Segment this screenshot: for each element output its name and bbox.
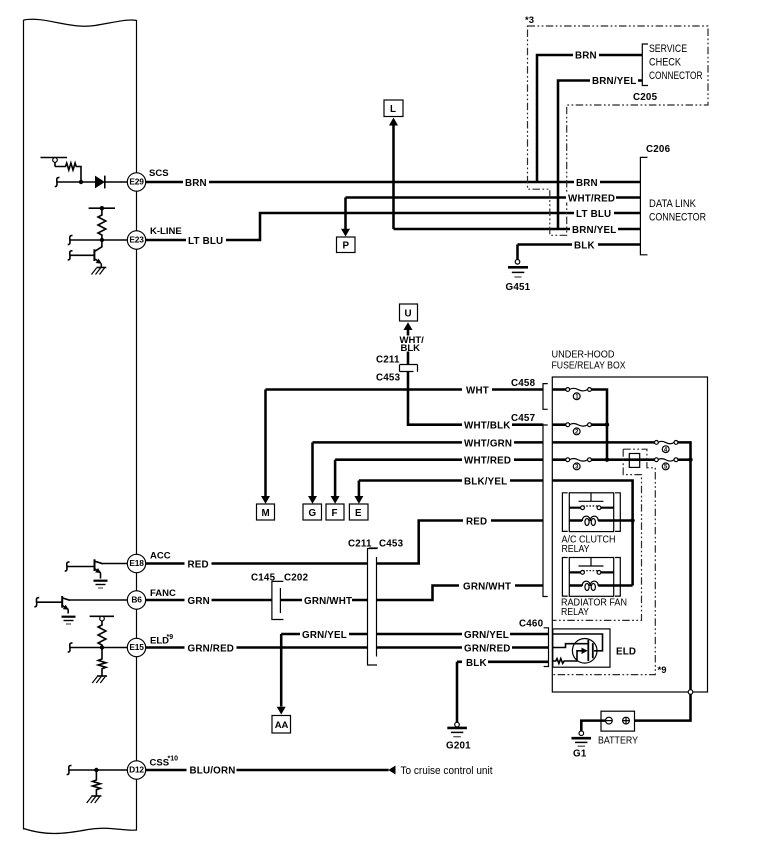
svg-text:E15: E15 [129, 642, 144, 652]
svg-text:C211: C211 [376, 355, 400, 366]
svg-text:BRN: BRN [185, 178, 207, 189]
svg-text:WHT/RED: WHT/RED [464, 456, 511, 467]
dash-dot option region left branch (relays) [553, 449, 642, 620]
wire WHT/GRN [313, 442, 544, 496]
label GRN/YEL (right) [462, 629, 510, 641]
svg-text:BRN/YEL: BRN/YEL [592, 76, 636, 87]
wire BRN/YEL (from L corner to data link connector) [394, 228, 641, 231]
svg-text:RED: RED [466, 517, 487, 528]
svg-text:K-LINE: K-LINE [150, 226, 182, 237]
svg-text:ELD: ELD [616, 647, 636, 658]
svg-text:RELAY: RELAY [561, 607, 589, 618]
relay component square (fuse box) [629, 454, 639, 468]
svg-text:C202: C202 [284, 573, 309, 584]
label BLU/ORN [187, 765, 237, 777]
wire battery negative to G1 [581, 721, 605, 731]
svg-text:FANC: FANC [150, 588, 176, 599]
label BLK (ELD ground wire) [462, 657, 488, 669]
svg-text:CONNECTOR: CONNECTOR [649, 70, 703, 82]
earth ground (B6 emitter) [62, 617, 76, 624]
svg-text:FUSE/RELAY BOX: FUSE/RELAY BOX [552, 361, 626, 372]
svg-text:C453: C453 [376, 373, 401, 384]
label BLK/YEL [462, 476, 510, 488]
svg-text:AA: AA [275, 720, 289, 731]
ground G1 [572, 731, 592, 760]
connector box M [257, 496, 275, 520]
wire vertical to M connector [264, 390, 267, 497]
svg-text:C458: C458 [511, 378, 536, 389]
svg-text:WHT/GRN: WHT/GRN [464, 438, 512, 449]
svg-text:B6: B6 [131, 595, 142, 605]
svg-text:BLK: BLK [574, 241, 595, 252]
svg-text:C457: C457 [511, 413, 536, 424]
wire vertical to L connector arrow [392, 125, 395, 229]
svg-text:RELAY: RELAY [562, 544, 590, 555]
D12 internal: lead, resistor, chassis ground [67, 765, 128, 803]
connector box AA [272, 707, 291, 733]
svg-text:L: L [390, 104, 396, 115]
svg-text:GRN/WHT: GRN/WHT [304, 596, 352, 607]
label WHT/RED (data link) [566, 193, 616, 205]
svg-text:To cruise control unit: To cruise control unit [401, 765, 493, 777]
E29 internal: input lead with hook [55, 177, 95, 186]
ground G201 [446, 722, 471, 751]
chassis ground (E23 transistor emitter) [92, 268, 107, 275]
pin E15 [127, 634, 173, 657]
svg-text:P: P [343, 241, 350, 252]
wire WHT/RED (from P corner to data link connector) [346, 196, 641, 199]
label WHT/GRN [462, 437, 514, 449]
label GRN/WHT (at relay) [459, 581, 515, 593]
label BRN (service check wire) [573, 50, 599, 62]
svg-text:GRN/RED: GRN/RED [464, 644, 511, 655]
ground G451 [506, 260, 531, 294]
pin E18 [127, 551, 170, 573]
label WHT/BLK [462, 420, 512, 432]
connector box E [349, 496, 368, 520]
svg-text:BLK/YEL: BLK/YEL [464, 477, 507, 488]
ELD unit [553, 629, 636, 667]
svg-text:C453: C453 [379, 539, 404, 550]
label BRN/YEL (service check wire) [590, 75, 638, 87]
svg-text:LT BLU: LT BLU [188, 236, 223, 247]
radiator fan relay [561, 558, 633, 619]
connector box U [400, 304, 418, 330]
label GRN/YEL (left) [300, 629, 349, 641]
wire GRN/RED (E15 to ELD) [146, 646, 549, 649]
svg-text:C205: C205 [633, 92, 658, 103]
svg-text:*10: *10 [168, 756, 179, 763]
svg-text:BATTERY: BATTERY [598, 736, 638, 747]
pin E29 [127, 168, 168, 191]
svg-text:C211: C211 [348, 539, 372, 550]
UNDER-HOOD FUSE/RELAY BOX title [552, 350, 626, 372]
label GRN/WHT (after C202) [302, 595, 352, 607]
svg-text:UNDER-HOOD: UNDER-HOOD [552, 350, 615, 361]
E23 internal: pull-up resistor to rail [89, 206, 115, 242]
svg-text:SERVICE: SERVICE [649, 43, 687, 55]
svg-text:G201: G201 [446, 741, 471, 752]
pin D12 [127, 756, 178, 780]
label LT BLU (at E23) [186, 235, 226, 247]
svg-text:CSS: CSS [150, 758, 170, 769]
connector C205 service check connector [633, 43, 703, 103]
E23 internal: lead with hook [68, 235, 128, 244]
svg-text:*9: *9 [167, 634, 174, 641]
connector C211/C453 inline (tall) [348, 539, 404, 666]
fuse 5 [655, 458, 678, 471]
svg-text:G1: G1 [573, 749, 587, 760]
connector C145/C202 inline [251, 573, 309, 620]
wire BRN drop to service check connector [537, 55, 642, 182]
wire WHT (to fuse 1) [266, 388, 544, 391]
svg-text:U: U [405, 309, 412, 320]
battery feed circle on box edge [688, 690, 693, 695]
connector box L [384, 100, 403, 126]
svg-text:CHECK: CHECK [649, 57, 682, 69]
wire K-LINE LT BLU (E23 right, up, right to data link connector) [146, 213, 641, 240]
svg-text:C206: C206 [646, 144, 671, 155]
dash-dot option region (fuses 4/5) right branch to *9 [553, 449, 655, 674]
label GRN/RED (at E15) [185, 643, 237, 655]
svg-text:GRN/RED: GRN/RED [188, 644, 235, 655]
E15 internal: lead with hook [68, 643, 128, 652]
svg-text:*9: *9 [658, 665, 667, 676]
connector C457 bracket [543, 425, 548, 597]
wire CSS BLU/ORN (D12 to cruise control) [146, 769, 389, 772]
wire GRN / GRN-WHT (B6 to radiator fan relay coil) [146, 586, 544, 601]
label GRN/RED (right) [462, 643, 512, 655]
connector box G [303, 496, 322, 520]
svg-text:SCS: SCS [149, 168, 169, 179]
wire BLK (ELD ground) [457, 662, 549, 723]
wire WHT/BLK from connector down to fuse box [408, 372, 543, 425]
svg-text:BLK: BLK [466, 658, 487, 669]
svg-text:LT BLU: LT BLU [576, 209, 611, 220]
svg-text:RED: RED [188, 560, 209, 571]
svg-text:BRN/YEL: BRN/YEL [572, 225, 616, 236]
svg-text:E: E [355, 508, 362, 519]
labels WHT row [462, 385, 492, 397]
connector box F [326, 496, 344, 520]
transistor Q3 (B6 driver) [34, 596, 127, 614]
svg-text:E23: E23 [129, 235, 144, 245]
diode D1 (E29 line) [95, 176, 127, 189]
pin E23 [127, 226, 181, 249]
svg-text:BRN: BRN [576, 178, 598, 189]
fuse 2 [566, 423, 592, 436]
fuse/relay box outline [552, 377, 707, 692]
connector box P [337, 229, 356, 253]
wire WHT/BLK up to U [407, 329, 410, 365]
svg-text:BRN: BRN [575, 51, 597, 62]
svg-text:WHT: WHT [466, 386, 489, 397]
wire SCS BRN main (E29 to data link connector) [146, 181, 641, 184]
svg-text:BLU/ORN: BLU/ORN [190, 766, 236, 777]
wire BRN/YEL drop to service check connector [558, 81, 642, 230]
wire vertical to AA connector [280, 634, 283, 707]
wire BLK/YEL feed inside box to relay coils [552, 481, 632, 586]
label GRN (at B6) [185, 595, 212, 607]
label RED (at E18) [185, 559, 212, 571]
fuse box internal wires [552, 390, 692, 721]
fuse 3 [566, 458, 592, 471]
ECM box (left, wavy top and bottom) [24, 19, 137, 833]
label WHT/RED [462, 455, 514, 467]
svg-text:WHT/BLK: WHT/BLK [464, 421, 511, 432]
label BRN (at E29) [183, 177, 209, 189]
connector C458 bracket [543, 384, 548, 410]
transistor Q1 (E23 driver) [68, 240, 102, 268]
connector C206 data link connector [640, 144, 706, 255]
svg-text:CONNECTOR: CONNECTOR [649, 212, 706, 224]
wire BLK/YEL (to relay coils) [359, 481, 544, 497]
svg-text:G451: G451 [506, 282, 531, 293]
svg-text:GRN: GRN [188, 596, 210, 607]
label BRN/YEL (data link) [570, 224, 618, 236]
svg-text:GRN/WHT: GRN/WHT [463, 582, 511, 593]
battery [598, 711, 638, 746]
dash-dot option region *3 [525, 15, 708, 235]
svg-text:GRN/YEL: GRN/YEL [302, 630, 347, 641]
svg-text:ACC: ACC [150, 551, 171, 562]
fuse 1 [566, 388, 592, 401]
label WHT/BLK (vertical wire to U) [400, 335, 425, 354]
label BRN (data link) [574, 177, 600, 189]
svg-text:WHT/RED: WHT/RED [568, 194, 615, 205]
transistor Q2 (E18 driver) [65, 559, 128, 578]
connector C460 bracket [519, 619, 549, 667]
svg-text:D12: D12 [129, 765, 144, 775]
wire WHT/RED (to fuse 3) [335, 460, 543, 497]
A/C clutch relay [562, 493, 633, 555]
label BLK (data link) [572, 240, 598, 252]
earth ground (E18 emitter) [94, 581, 108, 588]
wire GRN/YEL (AA to ELD) [281, 633, 548, 636]
label LT BLU (data link) [574, 208, 614, 220]
svg-text:E18: E18 [129, 558, 144, 568]
svg-text:BLK: BLK [401, 343, 421, 354]
svg-text:G: G [309, 508, 317, 519]
E15 internal: pull-up resistor to terminal [90, 616, 114, 649]
label RED (fuse box feed) [463, 516, 491, 528]
fuse 4 [655, 441, 678, 454]
svg-text:DATA LINK: DATA LINK [649, 198, 697, 210]
pin B6 [127, 588, 176, 609]
E29 internal: pull-up resistor and terminal [41, 158, 84, 185]
wire RED (E18 to A/C clutch relay coil) [146, 521, 544, 564]
svg-text:M: M [262, 508, 270, 519]
wire BLK (data link connector ground wire) [518, 243, 641, 246]
svg-text:E29: E29 [129, 177, 144, 187]
svg-text:F: F [332, 508, 338, 519]
svg-text:C460: C460 [519, 619, 544, 630]
resistor (E15 lower) and chassis ground [92, 648, 107, 684]
wire vertical from WHT/RED down to P connector arrow [344, 198, 347, 230]
arrow to cruise control unit [388, 765, 492, 777]
connector C211/C453 inline (upper small) [376, 355, 418, 384]
svg-text:*3: *3 [525, 15, 534, 26]
svg-text:GRN/YEL: GRN/YEL [464, 630, 509, 641]
wire G451 ground drop [516, 245, 519, 260]
